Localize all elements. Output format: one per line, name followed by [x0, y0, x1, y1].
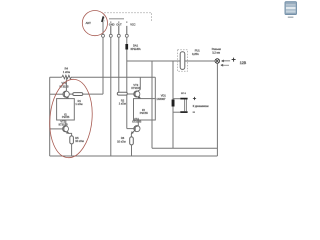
svg-text:R5: R5: [75, 136, 79, 140]
svg-text:КРЕН5А: КРЕН5А: [131, 47, 141, 51]
resistor R1 body: [73, 93, 83, 96]
wire K2 to VT4 collector: [137, 120, 139, 126]
svg-text:12В: 12В: [240, 61, 247, 65]
diode VD1 body: [172, 100, 175, 107]
watermark logo caption: [288, 17, 294, 18]
connector X1 plug symbol: [215, 59, 220, 64]
svg-text:РЭС55: РЭС55: [62, 117, 70, 119]
wire VT3 collector up: [139, 77, 141, 89]
pad circle pin 1: [102, 34, 105, 37]
antenna ANT stroke: [102, 16, 104, 22]
wire right top drop: [154, 77, 156, 98]
+12V arrow plus: [232, 58, 236, 62]
svg-text:R2: R2: [121, 99, 125, 103]
ground rail: [50, 155, 218, 157]
wire left vertical from +12V bus down: [151, 61, 153, 148]
svg-text:DA1: DA1: [133, 43, 139, 47]
wire R5 to ground rail: [71, 144, 73, 156]
wire pin1 down to R1 net: [102, 38, 104, 95]
pin 4 stub: [126, 22, 128, 35]
svg-text:R4: R4: [65, 67, 69, 71]
relay K2 box: [134, 99, 156, 120]
receiver module label (blurred): [109, 18, 124, 20]
wire VT1 collector up: [65, 77, 67, 91]
transistor VT1: [63, 91, 69, 98]
svg-text:1 кОм: 1 кОм: [63, 70, 70, 74]
+12V arrow line upper: [222, 60, 231, 62]
wire VT3 emitter to box: [139, 97, 141, 99]
wire VT1 to R1: [69, 93, 73, 95]
wire pin4 VCC down: [126, 38, 128, 129]
buzzer BA1 element left: [184, 99, 186, 111]
wire VT2 emitter to R5: [69, 133, 72, 136]
buzzer BA1 element right: [185, 99, 187, 111]
pad circle pin 2: [109, 34, 112, 37]
svg-text:ANT: ANT: [86, 21, 92, 25]
annotation red ellipse around left channel: [47, 78, 96, 160]
svg-text:VCC: VCC: [130, 23, 135, 26]
fuse FU1 body: [180, 52, 185, 70]
svg-text:FU1: FU1: [195, 49, 200, 53]
relay K1 box: [57, 99, 75, 120]
watermark logo badge: [285, 2, 297, 15]
wire pin3 OUT down to R2: [118, 38, 120, 94]
svg-text:ЗП-3: ЗП-3: [181, 93, 187, 95]
buzzer minus mark: [193, 111, 195, 113]
svg-text:GND: GND: [109, 23, 115, 26]
svg-text:Разъем: Разъем: [212, 47, 221, 51]
pad circle pin 3: [117, 34, 120, 37]
transistor VT4: [131, 126, 140, 134]
regulator DA1 body: [125, 44, 128, 50]
buzzer plus mark: [193, 97, 196, 100]
transistor VT2: [63, 126, 69, 134]
svg-text:R6: R6: [121, 136, 125, 140]
wire VT1 base: [50, 93, 65, 95]
svg-text:VT3: VT3: [133, 83, 138, 87]
top collector wire: [50, 76, 156, 78]
wire pin2 GND down to ground rail: [110, 38, 112, 157]
wire R2 to VT3 base: [127, 93, 135, 95]
svg-text:VD1: VD1: [161, 93, 167, 97]
pin 2 stub: [110, 22, 112, 35]
resistor R6 body: [130, 137, 134, 145]
fuse FU1 dashed box: [178, 50, 188, 72]
wire lower link rail: [152, 147, 217, 149]
resistor R5 body: [70, 136, 74, 144]
buzzer BA1 bottom plate: [180, 111, 187, 113]
svg-text:К1: К1: [64, 114, 67, 116]
wire VT2 base: [50, 128, 64, 130]
wire VT4 emitter to R6: [130, 134, 132, 137]
receiver module U1 dashed outline: [104, 13, 152, 22]
buzzer BA1 top plate: [180, 98, 187, 100]
svg-text:РЭС55: РЭС55: [140, 112, 149, 115]
wire to buzzer plus: [173, 98, 180, 100]
wire connector ground drop: [216, 63, 218, 156]
left supply rail: [49, 77, 51, 156]
svg-text:К динамикам: К динамикам: [193, 104, 209, 108]
pad circle pin 4: [125, 34, 128, 37]
svg-text:К2: К2: [142, 109, 145, 112]
pin 3 stub: [118, 22, 120, 35]
svg-text:OUT: OUT: [116, 23, 122, 26]
wire K1 to VT2 collector: [65, 120, 67, 126]
wire VT4 base: [127, 128, 135, 130]
+12V arrow line lower: [221, 64, 229, 66]
wire R1 to pin1 net: [83, 93, 103, 95]
wire diode branch vertical: [172, 61, 174, 148]
svg-text:1N4007: 1N4007: [156, 97, 166, 101]
wire +12V bus: [127, 60, 215, 62]
resistor R2 body: [117, 92, 127, 95]
resistor R4 zigzag: [62, 75, 71, 79]
svg-text:R1: R1: [78, 99, 82, 103]
transistor VT3: [134, 90, 141, 99]
wire to buzzer minus: [173, 111, 180, 113]
pin 1 stub: [102, 22, 104, 35]
annotation red circle around antenna: [82, 11, 107, 36]
wire R6 to ground rail: [131, 145, 133, 156]
